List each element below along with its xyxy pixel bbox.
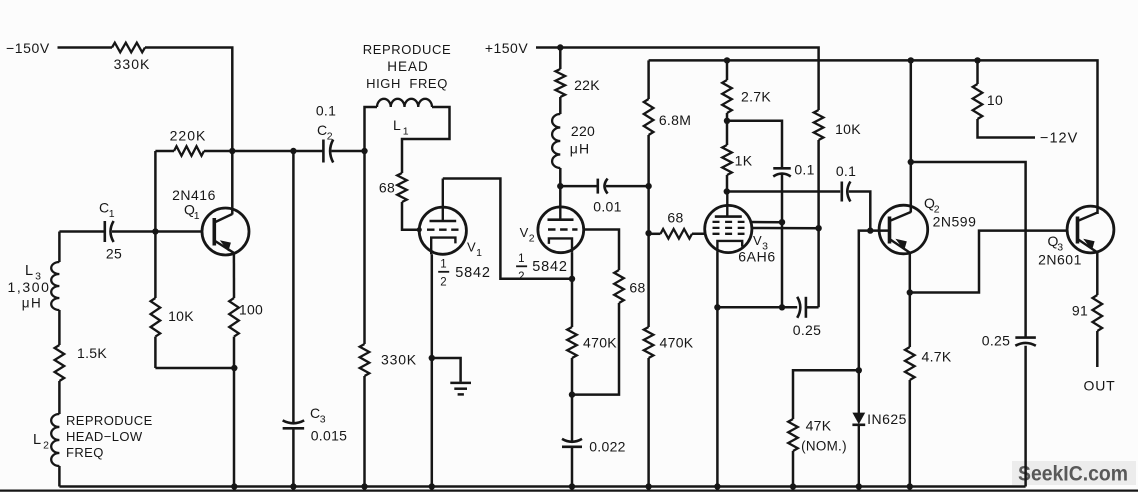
wire — [978, 119, 1036, 138]
junction — [907, 289, 913, 295]
label 0.022 — [589, 439, 626, 455]
svg-text:10K: 10K — [835, 121, 861, 137]
svg-text:REPRODUCE: REPRODUCE — [363, 42, 451, 57]
label uH (220) — [570, 141, 591, 157]
label 0.1 (screen) — [794, 162, 814, 178]
wire — [1024, 346, 1027, 487]
svg-text:C: C — [317, 122, 327, 138]
label 470K (right) — [660, 335, 694, 351]
wire — [692, 232, 706, 235]
svg-text:1.5K: 1.5K — [77, 345, 107, 361]
capacitor 0.1 (screen bypass) — [773, 168, 791, 176]
label 10K (screen) — [835, 121, 861, 137]
svg-text:68: 68 — [629, 280, 645, 296]
wire — [806, 306, 819, 309]
junction — [856, 483, 862, 489]
svg-text:10: 10 — [987, 92, 1003, 108]
power label +150V — [485, 40, 529, 56]
label 220K — [170, 128, 207, 144]
wire — [726, 113, 729, 145]
wire ground rail — [59, 485, 1025, 488]
junction — [231, 483, 237, 489]
junction — [557, 44, 563, 50]
wire — [233, 337, 236, 487]
label 0.25 (output) — [982, 333, 1010, 349]
wire — [606, 185, 649, 188]
label C1 — [99, 200, 115, 221]
svg-text:6.8M: 6.8M — [659, 112, 691, 128]
capacitor 0.25 (V3 cathode) — [797, 297, 806, 318]
resistor R 91 — [1093, 295, 1103, 331]
junction — [290, 148, 296, 154]
label REPRODUCE — [66, 413, 153, 428]
label 68 (V3) — [667, 210, 683, 226]
label 0.1 — [316, 103, 336, 119]
junction — [908, 57, 914, 63]
wire — [559, 97, 562, 114]
svg-text:91: 91 — [1072, 303, 1088, 319]
wire — [792, 451, 795, 487]
capacitor C1 25 — [105, 221, 114, 242]
junction — [907, 483, 913, 489]
label HEAD-LOW — [66, 429, 143, 444]
junction — [361, 148, 367, 154]
label HIGH FREQ — [366, 76, 448, 91]
svg-text:1: 1 — [403, 126, 409, 138]
inductor L1 reproduce head high freq — [377, 99, 432, 107]
label 22K — [574, 77, 600, 93]
wire — [571, 447, 574, 487]
junction — [290, 483, 296, 489]
wire — [363, 151, 366, 344]
svg-text:1: 1 — [518, 253, 525, 265]
wire — [859, 231, 871, 371]
svg-text:2N599: 2N599 — [933, 214, 977, 230]
wire — [59, 230, 104, 233]
label Q2 — [924, 195, 940, 216]
junction — [779, 219, 785, 225]
resistor R 1K — [722, 145, 732, 175]
svg-text:2: 2 — [43, 440, 49, 452]
svg-text:68: 68 — [667, 210, 683, 226]
wire — [727, 121, 782, 169]
wire — [726, 60, 729, 80]
junction — [417, 227, 422, 232]
label 6AH6 — [738, 249, 775, 265]
svg-text:1: 1 — [440, 259, 447, 271]
wire — [58, 232, 61, 263]
label REPRODUCE (high) — [363, 42, 451, 57]
label 1/2 fraction (V2) — [516, 253, 527, 283]
svg-text:25: 25 — [106, 246, 122, 262]
junction — [856, 367, 862, 373]
wire — [726, 175, 729, 192]
wire — [363, 376, 366, 487]
label 1,300 — [7, 279, 50, 295]
label 1/2 fraction (V1) — [438, 259, 449, 289]
label L3 — [25, 263, 41, 283]
wire V3 screen supply — [752, 227, 819, 230]
wire — [58, 310, 61, 345]
label uH — [22, 296, 43, 311]
wire V2 grid to 68 — [584, 230, 619, 271]
wire — [402, 107, 450, 173]
label V2 — [520, 225, 535, 245]
label 1K — [735, 153, 753, 169]
svg-text:C: C — [99, 200, 109, 216]
ground symbol — [450, 383, 471, 395]
wire Q2 emitter — [909, 253, 912, 347]
resistor R 470K (V2 cathode) — [567, 327, 577, 358]
junction — [229, 148, 235, 154]
svg-text:47K: 47K — [806, 418, 832, 434]
label C3 — [310, 405, 326, 426]
svg-text:2N601: 2N601 — [1038, 252, 1082, 268]
wire — [402, 202, 419, 230]
wire — [58, 46, 113, 49]
wire — [727, 190, 840, 193]
wire — [365, 107, 378, 151]
svg-text:0.015: 0.015 — [311, 428, 348, 444]
label 68 (V2) — [629, 280, 645, 296]
wire — [536, 46, 560, 49]
resistor R 2.7K — [722, 80, 732, 113]
svg-text:μH: μH — [570, 141, 591, 157]
svg-text:HEAD: HEAD — [387, 59, 429, 74]
junction — [645, 183, 651, 189]
label 5842 (V2) — [532, 259, 567, 275]
wire — [817, 228, 820, 307]
svg-text:0.1: 0.1 — [836, 163, 856, 179]
wire — [647, 358, 650, 487]
wire — [781, 222, 784, 307]
wire — [58, 381, 61, 414]
label 2N601 — [1038, 252, 1082, 268]
wire — [154, 337, 157, 368]
wire — [58, 466, 61, 487]
resistor R 68 (V3 grid stop) — [661, 229, 693, 239]
label 0.25 (V3) — [793, 322, 821, 338]
svg-text:1: 1 — [109, 208, 115, 220]
svg-text:470K: 470K — [660, 335, 694, 351]
wire Q2 collector — [910, 60, 913, 212]
label OUT — [1084, 378, 1116, 394]
junction node Q1 base — [152, 228, 158, 234]
label 1.5K — [77, 345, 107, 361]
label 0.1 (coupling) — [836, 163, 856, 179]
label 10 — [987, 92, 1003, 108]
tube V1 1/2 5842 — [419, 179, 466, 255]
junction — [361, 483, 367, 489]
capacitor 0.25 (output) — [1015, 338, 1036, 346]
wire V3 cathode — [716, 253, 719, 487]
watermark SeekIC.com — [1012, 461, 1136, 486]
svg-text:0.1: 0.1 — [794, 162, 814, 178]
label (NOM.) — [801, 439, 847, 454]
junction — [569, 483, 575, 489]
wire V1 cathode — [431, 254, 434, 486]
svg-text:2.7K: 2.7K — [741, 89, 771, 105]
svg-text:220K: 220K — [170, 128, 207, 144]
transistor Q1 2N416 — [202, 208, 249, 255]
wire — [572, 303, 619, 395]
svg-text:2: 2 — [440, 277, 447, 289]
wire V1 plate to V2 cathode — [443, 179, 572, 279]
label Q1 — [184, 202, 200, 223]
wire — [717, 306, 797, 309]
inductor L2 reproduce head low freq — [51, 414, 59, 466]
wire — [870, 229, 889, 232]
label 2.7K — [741, 89, 771, 105]
wire — [781, 175, 784, 223]
power label -150V — [6, 40, 50, 56]
junction — [569, 276, 575, 282]
junction node Q2 base — [867, 227, 873, 233]
capacitor C3 0.015 — [283, 420, 305, 428]
svg-text:1K: 1K — [735, 153, 753, 169]
svg-text:100: 100 — [239, 302, 263, 318]
svg-text:4.7K: 4.7K — [922, 349, 952, 365]
wire — [909, 380, 912, 487]
wire — [432, 358, 461, 382]
label 100 — [239, 302, 263, 318]
wire — [155, 230, 202, 233]
label Q3 — [1048, 233, 1064, 254]
svg-text:V: V — [467, 240, 476, 255]
svg-text:L: L — [393, 117, 401, 133]
label 25 — [106, 246, 122, 262]
resistor R 1.5K — [55, 345, 65, 381]
svg-text:−12V: −12V — [1040, 131, 1078, 147]
junction — [714, 304, 720, 310]
resistor R 10 — [973, 84, 983, 119]
svg-text:FREQ: FREQ — [66, 445, 104, 460]
wire output lead — [1096, 331, 1099, 367]
svg-text:L: L — [25, 263, 33, 279]
wire — [849, 192, 871, 231]
resistor R 220K — [174, 146, 204, 156]
tube V3 6AH6 — [705, 192, 752, 253]
svg-text:C: C — [310, 405, 320, 421]
wire — [204, 150, 323, 153]
label 47K — [806, 418, 832, 434]
diode 1N625 — [852, 370, 865, 486]
svg-text:HEAD−LOW: HEAD−LOW — [66, 429, 143, 444]
resistor R 6.8M — [644, 99, 654, 135]
wire — [649, 233, 661, 236]
wire — [559, 168, 562, 207]
label 91 — [1072, 303, 1088, 319]
label 6.8M — [659, 112, 691, 128]
svg-text:2: 2 — [529, 233, 535, 245]
junction — [908, 159, 914, 165]
label 330K — [114, 56, 151, 72]
svg-text:0.25: 0.25 — [982, 333, 1010, 349]
junction — [779, 304, 785, 310]
label 5842 — [455, 265, 490, 281]
junction — [790, 483, 796, 489]
wire — [154, 151, 157, 298]
junction — [724, 57, 730, 63]
wire — [145, 48, 232, 215]
junction — [724, 118, 730, 124]
svg-text:OUT: OUT — [1084, 378, 1116, 394]
svg-text:2: 2 — [327, 131, 333, 143]
capacitor 0.1 (coupling to Q2) — [842, 182, 851, 202]
junction — [714, 483, 720, 489]
label 10K — [168, 308, 194, 324]
label L1 — [393, 117, 409, 138]
svg-text:μH: μH — [22, 296, 43, 311]
resistor R 10K (Q1 base divider) — [151, 298, 161, 337]
resistor R 330K (top left) — [112, 43, 145, 53]
capacitor 0.022 — [562, 439, 582, 447]
wire — [560, 185, 598, 188]
label FREQ — [66, 445, 104, 460]
svg-text:L: L — [33, 432, 41, 448]
wire — [976, 60, 979, 84]
svg-text:330K: 330K — [381, 352, 417, 368]
label V1 — [467, 240, 482, 260]
label HEAD — [387, 59, 429, 74]
svg-text:IN625: IN625 — [867, 411, 907, 427]
wire V2 cathode — [571, 253, 574, 327]
label V3 — [753, 233, 768, 253]
label 0.01 — [593, 199, 621, 215]
svg-text:SeekIC.com: SeekIC.com — [1018, 463, 1128, 486]
junction — [569, 391, 575, 397]
svg-text:0.022: 0.022 — [589, 439, 626, 455]
transistor Q3 2N601 — [1067, 206, 1114, 253]
tube V2 1/2 5842 — [538, 207, 584, 253]
svg-text:V: V — [520, 225, 529, 240]
wire — [793, 370, 859, 419]
junction — [645, 230, 651, 236]
resistor R 100 — [229, 298, 239, 337]
label L2 — [33, 432, 49, 452]
label 330K — [381, 352, 417, 368]
wire — [155, 150, 174, 153]
junction — [724, 188, 730, 194]
svg-text:0.25: 0.25 — [793, 322, 821, 338]
svg-text:22K: 22K — [574, 77, 600, 93]
inductor 220uH — [552, 114, 560, 168]
wire — [817, 140, 820, 228]
wire collector to 0.25 — [911, 162, 1026, 338]
wire +150V rail — [560, 48, 818, 111]
svg-text:6AH6: 6AH6 — [738, 249, 775, 265]
junction — [557, 183, 563, 189]
resistor R 47K (NOM.) — [788, 419, 798, 451]
svg-text:0.01: 0.01 — [593, 199, 621, 215]
resistor R 68 (V2) — [614, 270, 624, 303]
svg-text:−150V: −150V — [6, 40, 50, 56]
svg-text:REPRODUCE: REPRODUCE — [66, 413, 153, 428]
capacitor C2 0.1 — [323, 140, 333, 163]
svg-text:1: 1 — [476, 247, 482, 259]
wire — [647, 60, 650, 99]
wire second rail — [649, 60, 1098, 214]
resistor R 470K (V3 grid) — [644, 327, 654, 358]
junction — [645, 483, 651, 489]
wire V3 screen to bypass — [751, 221, 782, 224]
wire — [332, 150, 365, 153]
svg-text:10K: 10K — [168, 308, 194, 324]
wire — [647, 135, 650, 327]
svg-text:68: 68 — [379, 180, 395, 196]
resistor R 68 (V1 grid stop) — [397, 173, 407, 202]
wire — [112, 230, 155, 233]
svg-text:(NOM.): (NOM.) — [801, 439, 847, 454]
border line bottom — [0, 490, 1138, 492]
label 68 — [379, 180, 395, 196]
svg-text:V: V — [753, 233, 762, 248]
wire — [559, 48, 562, 70]
transistor Q2 2N599 — [879, 205, 928, 254]
wire emitter to Q3 base — [910, 231, 1067, 293]
svg-text:HIGH FREQ: HIGH FREQ — [366, 76, 448, 91]
label C2 — [317, 122, 333, 143]
resistor R 330K (V1 grid) — [360, 344, 370, 376]
svg-text:1,300: 1,300 — [7, 279, 50, 295]
svg-text:5842: 5842 — [455, 265, 490, 281]
label IN625 — [867, 411, 907, 427]
label 0.015 — [311, 428, 348, 444]
junction — [429, 483, 435, 489]
svg-text:220: 220 — [571, 123, 595, 139]
svg-text:470K: 470K — [583, 335, 617, 351]
junction — [429, 355, 435, 361]
wire — [233, 253, 236, 298]
capacitor 0.01 — [598, 179, 608, 194]
label 2N599 — [933, 214, 977, 230]
svg-text:5842: 5842 — [532, 259, 567, 275]
junction — [974, 57, 980, 63]
wire Q3 emitter — [1096, 252, 1099, 295]
power label -12V — [1040, 131, 1078, 147]
junction — [815, 225, 821, 231]
svg-text:0.1: 0.1 — [316, 103, 336, 119]
wire — [155, 367, 234, 370]
resistor R 10K (screen) — [814, 110, 824, 140]
label 2N416 — [172, 187, 216, 203]
resistor R 22K — [556, 69, 566, 97]
svg-text:1: 1 — [194, 210, 200, 222]
label 470K (left) — [583, 335, 617, 351]
svg-text:330K: 330K — [114, 56, 151, 72]
wire — [571, 358, 574, 441]
svg-text:+150V: +150V — [485, 40, 529, 56]
resistor R 4.7K — [905, 347, 915, 380]
inductor L3 1300uH — [51, 262, 59, 310]
junction — [231, 365, 237, 371]
wire — [292, 151, 295, 422]
svg-text:3: 3 — [320, 414, 326, 426]
svg-text:2: 2 — [518, 271, 525, 283]
label 220 — [571, 123, 595, 139]
label 4.7K — [922, 349, 952, 365]
wire — [292, 428, 295, 486]
